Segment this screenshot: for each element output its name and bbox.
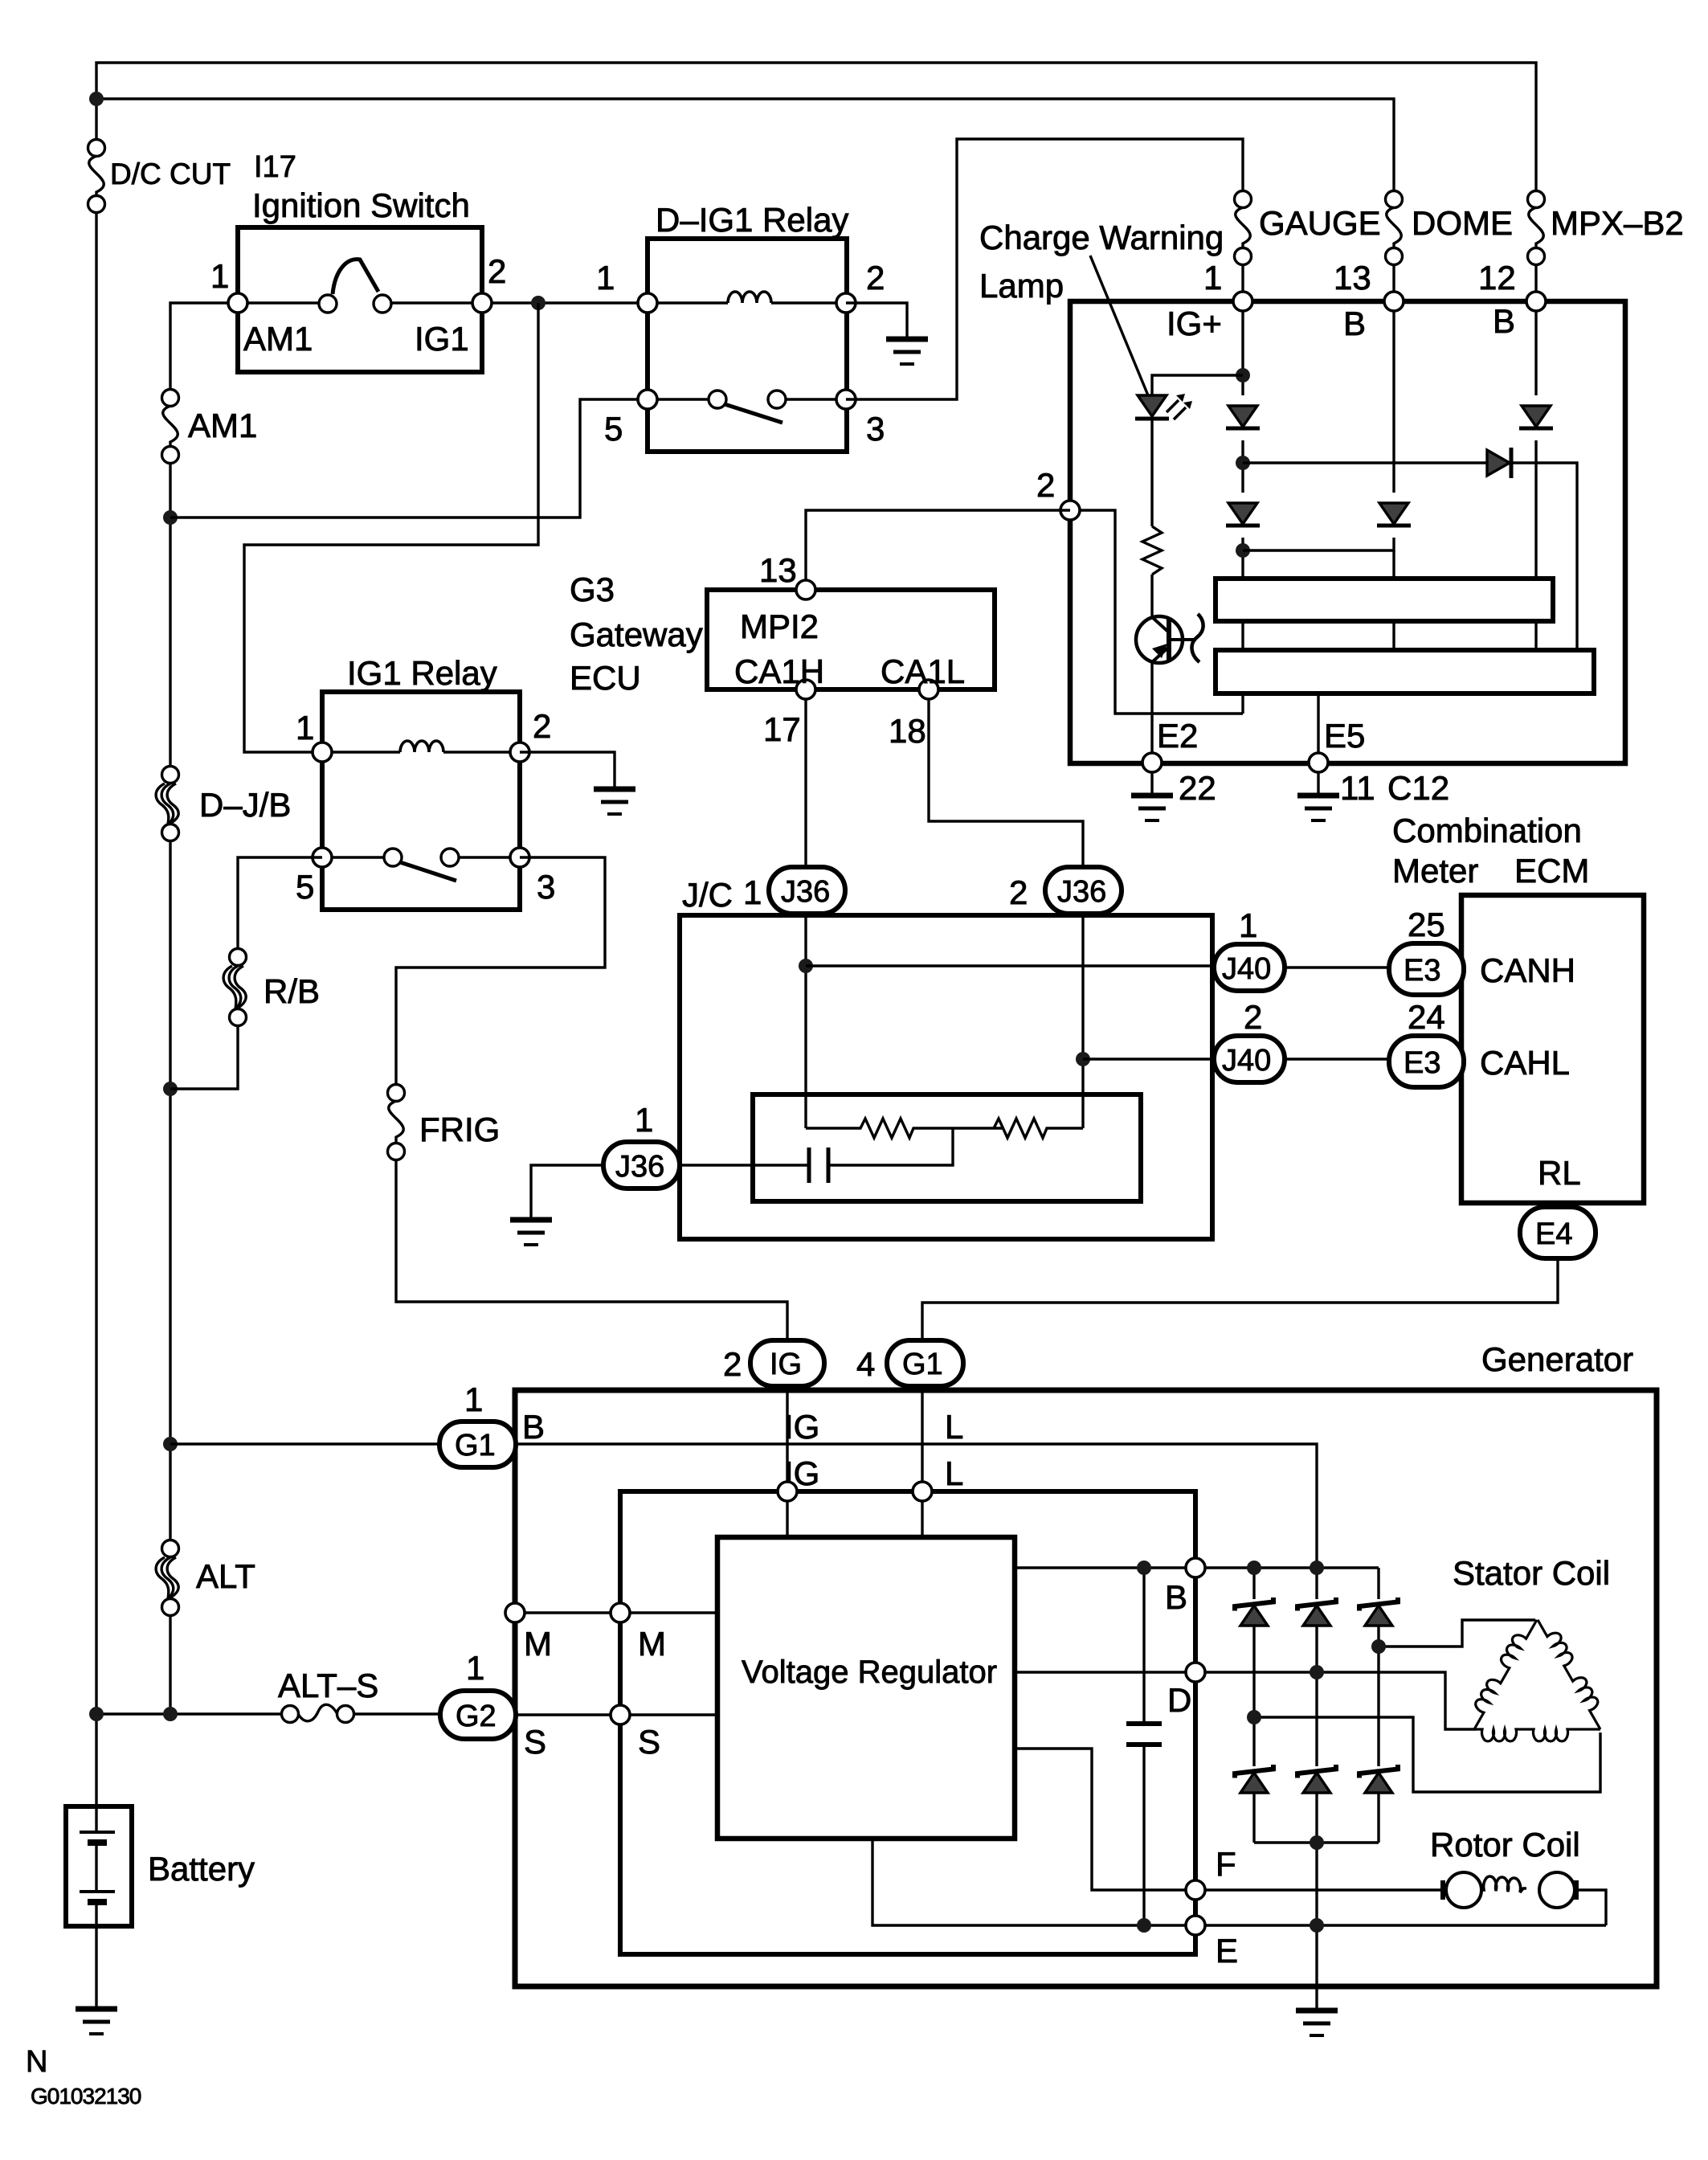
svg-text:E3: E3 (1404, 954, 1440, 988)
svg-text:G2: G2 (456, 1700, 496, 1733)
svg-text:D/C CUT: D/C CUT (110, 157, 231, 190)
diode meter D3 (B column) (1377, 503, 1411, 526)
svg-text:AM1: AM1 (243, 320, 313, 358)
svg-text:ECM: ECM (1514, 852, 1589, 890)
svg-text:1: 1 (464, 1381, 483, 1418)
wire: capacitor to resistor midpoint (828, 1128, 953, 1165)
pin 1 IG1 relay (313, 742, 332, 762)
svg-text:G01032130: G01032130 (31, 2084, 141, 2109)
svg-text:GAUGE: GAUGE (1259, 204, 1381, 242)
svg-text:Stator Coil: Stator Coil (1453, 1554, 1610, 1592)
svg-text:G1: G1 (902, 1348, 943, 1381)
svg-text:1: 1 (635, 1101, 653, 1139)
wire: IG pin to voltage regulator (786, 1491, 788, 1537)
wire: G1 oval into regulator assembly (921, 1386, 923, 1491)
svg-text:25: 25 (1408, 906, 1445, 943)
IG1 relay coil (322, 751, 400, 753)
svg-text:1: 1 (210, 257, 229, 295)
wire: ALT-S fuse to G2 connector (353, 1712, 440, 1715)
pin 3 D-IG1 (836, 390, 856, 409)
wire: battery rail to ALT-S fuse (96, 1712, 282, 1715)
svg-text:R/B: R/B (264, 972, 320, 1010)
IG1 relay switch (322, 856, 384, 858)
terminating resistor box (753, 1094, 1141, 1201)
svg-text:5: 5 (296, 868, 314, 906)
svg-text:2: 2 (1009, 873, 1028, 911)
ignition switch contacts (319, 295, 337, 313)
node: junction bottom bus neutral (1310, 1835, 1324, 1850)
rotor coil with slip rings (1443, 1872, 1606, 1925)
stator coil delta winding (1464, 1614, 1611, 1741)
wire: stator phase 3 tap to triangle right vertex (1254, 1717, 1600, 1792)
svg-text:M: M (524, 1625, 552, 1663)
svg-text:CAHL: CAHL (1480, 1044, 1570, 1082)
svg-text:Combination: Combination (1392, 812, 1582, 849)
pin 13 G3 gateway (796, 580, 815, 599)
wire: R/B fuse to junction at x212 (170, 1025, 238, 1089)
node: junction R/B wire at (212,1355) (163, 1082, 178, 1096)
relay IG1 box (313, 692, 529, 910)
transistor Q1 meter lamp driver (1136, 616, 1183, 663)
svg-text:1: 1 (596, 259, 615, 297)
svg-text:S: S (638, 1723, 660, 1761)
voltage regulator box (717, 1537, 1015, 1839)
pin 2 ignition switch (472, 293, 492, 313)
svg-text:DOME: DOME (1412, 204, 1513, 242)
annotation line from Lamp label to warning LED (1090, 256, 1148, 395)
connector oval J36 no.2 (1045, 867, 1122, 914)
wire: D-IG1 pin2 to ground (846, 303, 907, 337)
node: junction E bus neutral (1310, 1918, 1324, 1933)
svg-text:1: 1 (296, 709, 314, 747)
connector oval E3 no.1 (1389, 943, 1464, 995)
wire: J40 no.1 to E3 no.1 (1285, 966, 1389, 968)
svg-text:J40: J40 (1222, 952, 1271, 986)
fuse D-J/B (fusible link) (162, 767, 179, 783)
svg-text:ALT–S: ALT–S (278, 1667, 378, 1704)
svg-text:17: 17 (763, 710, 801, 748)
fuse FRIG (388, 1085, 788, 1341)
pin 18 G3 gateway CA1L (919, 680, 938, 699)
J/C junction connector box (680, 915, 1212, 1239)
fuse D/C CUT (88, 140, 105, 157)
svg-text:1: 1 (1239, 906, 1257, 944)
svg-text:3: 3 (866, 410, 885, 448)
svg-text:18: 18 (889, 712, 926, 750)
pin 1 meter IG+ (1233, 292, 1252, 311)
wire: IG1 pin2 to ground (520, 752, 615, 787)
svg-text:M: M (638, 1625, 666, 1663)
rectifier diode column 3 (1377, 1568, 1379, 1599)
wire: battery positive top rail 1 to MPX-B2 fuse (96, 63, 1536, 191)
fuse GAUGE (1235, 191, 1252, 208)
pin 17 G3 gateway CA1H (796, 680, 815, 699)
ground: meter E5 (1297, 796, 1339, 820)
wire: VR B output to rectifier (1015, 1566, 1379, 1569)
ground: meter E2 (1131, 796, 1173, 820)
svg-text:AM1: AM1 (188, 407, 257, 444)
ground: IG1 relay coil (594, 789, 635, 814)
svg-text:2: 2 (488, 252, 506, 290)
svg-text:ALT: ALT (196, 1557, 255, 1595)
wire: meter IG+ column with diodes (1241, 311, 1244, 395)
wire: J40 no.2 to E3 no.2 (1285, 1057, 1389, 1060)
pin 2 D-IG1 (836, 293, 856, 313)
svg-text:MPX–B2: MPX–B2 (1551, 204, 1684, 242)
svg-text:Lamp: Lamp (979, 267, 1064, 305)
svg-text:G1: G1 (455, 1429, 496, 1462)
svg-text:B: B (1493, 302, 1515, 340)
pin 12 meter B (1526, 292, 1546, 311)
svg-text:CANH: CANH (1480, 951, 1575, 989)
pin E regulator assembly (1186, 1916, 1205, 1935)
node: junction phase2 tap on D line (1310, 1665, 1324, 1679)
svg-text:Meter: Meter (1392, 852, 1478, 890)
wire: rectifier neutral to ground (1315, 1843, 1318, 2009)
svg-text:ECU: ECU (570, 659, 641, 697)
wire: S terminal from G2 (516, 1713, 717, 1716)
svg-text:J36: J36 (781, 875, 830, 909)
connector oval E3 no.2 (1389, 1036, 1464, 1087)
fuse ALT (fusible link) (162, 1540, 179, 1557)
node: junction generator B wire at (212,1797) (163, 1437, 178, 1451)
wire: meter pin2 to G3 pin13 (806, 510, 1070, 590)
pin 5 IG1 relay (313, 848, 332, 867)
D-IG1 relay switch (648, 398, 709, 400)
svg-text:E5: E5 (1324, 717, 1365, 755)
wire: G3 pin18 to J36 no.2 (929, 699, 1083, 868)
wire: D-J/B to ALT fuse column (169, 841, 171, 1540)
svg-text:FRIG: FRIG (419, 1111, 500, 1148)
pin 2 meter (1060, 501, 1080, 520)
node: junction CANH at (1003,1202) (799, 959, 813, 973)
connector oval J40 no.1 (1214, 944, 1285, 991)
svg-text:IG: IG (770, 1348, 802, 1381)
diode meter D4 (MPX column) (1519, 406, 1553, 428)
wire: AM1 fuse to junction A (169, 463, 171, 767)
node: junction IG+ low tap (1236, 543, 1250, 558)
wire: VR E return bus (872, 1839, 1606, 1925)
ECM box (1461, 895, 1644, 1203)
node: junction IG+ lamp tap (1236, 368, 1250, 382)
svg-text:13: 13 (759, 551, 797, 589)
svg-text:24: 24 (1408, 998, 1445, 1036)
svg-text:22: 22 (1179, 769, 1216, 807)
resistor R1 (terminating) (806, 1119, 1003, 1138)
wire: ignition junction down to IG1 relay pin1 (244, 303, 538, 752)
connector oval G1 (pin 4) (887, 1340, 963, 1386)
wire: IG1 pin3 to FRIG fuse (396, 857, 605, 1085)
wire: GAUGE fuse to meter pin1 (1241, 264, 1244, 301)
svg-text:IG: IG (784, 1408, 819, 1446)
stator winding right side (1538, 1614, 1611, 1729)
svg-text:E2: E2 (1157, 717, 1198, 755)
svg-text:Generator: Generator (1481, 1340, 1633, 1378)
pin B regulator assembly (1186, 1558, 1205, 1577)
wire: ECM RL E4 to generator G1 connector (922, 1258, 1558, 1340)
svg-text:Rotor Coil: Rotor Coil (1430, 1826, 1580, 1863)
SECTION-TOPLEFT (1235, 191, 1545, 302)
wire: battery negative to ground (95, 1902, 97, 2007)
LED charge warning lamp (1138, 395, 1167, 416)
G3 Gateway ECU box (707, 590, 995, 689)
wire: bar1 to bar2 columns (1241, 621, 1244, 650)
node: junction battery rail at (120,123) (89, 92, 104, 106)
fuse ALT-S (282, 1706, 299, 1723)
wire: DOME fuse to meter pin13 (1392, 264, 1395, 301)
wire: rectifier bottom bus (1254, 1841, 1379, 1843)
svg-text:B: B (1165, 1578, 1187, 1616)
wire: capacitor branch upper (1142, 1568, 1145, 1724)
ignition switch I17 box (228, 227, 492, 372)
node: junction capacitor top on B bus (1137, 1561, 1151, 1575)
wire: E5 to ground (1317, 772, 1319, 794)
svg-text:B: B (1343, 305, 1366, 342)
wire: rotor return to E bus (1576, 1890, 1606, 1925)
wire: E2 to ground (1150, 772, 1153, 794)
svg-text:D–J/B: D–J/B (199, 786, 291, 824)
wire: generator B to rectifier top (516, 1444, 1317, 1568)
svg-text:G3: G3 (570, 571, 615, 608)
stator winding bottom side (1474, 1729, 1600, 1741)
wire: J36 no.3 to ground (531, 1165, 603, 1218)
svg-text:I17: I17 (254, 150, 296, 184)
wire: IG1 pin5 to R/B fuse (238, 857, 322, 949)
pin E2 meter (1142, 753, 1162, 772)
svg-text:3: 3 (537, 868, 555, 906)
svg-text:IG1 Relay: IG1 Relay (347, 654, 497, 692)
svg-text:E4: E4 (1535, 1217, 1572, 1251)
connector oval G2 (pin 1, S terminal) (440, 1691, 516, 1739)
svg-text:S: S (524, 1723, 546, 1761)
wire: meter pin2 internal return (1080, 510, 1243, 714)
svg-text:D: D (1167, 1681, 1191, 1719)
svg-text:2: 2 (723, 1345, 742, 1383)
pin S regulator assembly (611, 1705, 630, 1724)
wire: IG oval into regulator assembly (786, 1386, 788, 1491)
svg-text:11: 11 (1340, 769, 1375, 807)
wire: horizontal diode run from IG+ mid tap (1243, 461, 1487, 464)
pin 2 IG1 relay (510, 742, 529, 762)
wire: meter B column (pin 12) (1534, 311, 1537, 395)
svg-text:E: E (1216, 1932, 1238, 1970)
svg-text:L: L (945, 1454, 963, 1492)
SECTION-GENERATOR (89, 1704, 440, 1722)
svg-text:12: 12 (1478, 259, 1516, 297)
svg-text:Battery: Battery (148, 1850, 255, 1888)
svg-text:2: 2 (533, 707, 551, 745)
wire: B column diode to IG+ low tap (1243, 538, 1394, 550)
wire: L pin to voltage regulator (921, 1491, 923, 1537)
relay D-IG1 box (638, 239, 856, 452)
svg-text:1: 1 (466, 1649, 484, 1687)
wire: stator phase 1 tap to triangle apex (1379, 1620, 1535, 1647)
wire: J36 no.2 down to resistor R2 (1081, 914, 1084, 1128)
pin 13 meter B (1384, 292, 1404, 311)
node: junction ALT column ALT-S at (212,2133) (163, 1707, 178, 1721)
svg-text:J/C: J/C (682, 876, 733, 914)
wire: J36 no.3 to capacitor (676, 1164, 809, 1166)
diode meter D1 (IG+ upper) (1226, 406, 1260, 428)
resistor R2 (terminating) (994, 1119, 1083, 1138)
pin L regulator assembly (913, 1482, 932, 1501)
svg-text:Ignition Switch: Ignition Switch (252, 186, 470, 224)
svg-text:E3: E3 (1404, 1046, 1440, 1080)
wire: top rail 2 to DOME fuse (96, 99, 1394, 191)
svg-text:4: 4 (856, 1345, 875, 1383)
rectifier diode column 2 (1315, 1568, 1318, 1599)
svg-text:J36: J36 (1057, 875, 1106, 909)
svg-text:CA1L: CA1L (881, 652, 965, 690)
node: junction phase3 tap (1247, 1710, 1261, 1724)
svg-text:Gateway: Gateway (570, 616, 703, 653)
svg-text:N: N (26, 2045, 47, 2079)
svg-text:B: B (522, 1408, 545, 1446)
pin F regulator assembly (1186, 1880, 1205, 1900)
fuse DOME (1386, 191, 1403, 208)
capacitor C2 (noise suppressor) (1126, 1724, 1162, 1745)
svg-text:D–IG1 Relay: D–IG1 Relay (656, 201, 848, 239)
svg-text:J36: J36 (615, 1150, 664, 1184)
wire: G3 pin17 to J36 no.1 (804, 699, 807, 868)
wire: bar2 to E5 pin (1317, 693, 1319, 763)
svg-text:2: 2 (1036, 466, 1055, 504)
ground: CAN shield J36 (510, 1220, 552, 1245)
svg-text:IG+: IG+ (1167, 305, 1222, 342)
node: junction B bus column2 (1310, 1561, 1324, 1575)
connector oval E4 (1520, 1207, 1596, 1258)
svg-text:1: 1 (743, 873, 762, 911)
pin M regulator assembly (611, 1603, 630, 1622)
connector oval J36 no.1 (769, 867, 845, 914)
resistor meter R (lamp driver) (1142, 526, 1162, 575)
wire: B column to gauge bar1 (1392, 550, 1395, 579)
svg-text:Charge Warning: Charge Warning (979, 219, 1224, 256)
wire: D-IG1 pin3 up over to GAUGE fuse (846, 139, 1243, 399)
wire: MPX diode to gauge bar1 (1534, 440, 1537, 579)
svg-text:CA1H: CA1H (734, 652, 824, 690)
fuse MPX-B2 (1528, 191, 1545, 208)
pin IG regulator assembly (778, 1482, 797, 1501)
svg-text:RL: RL (1538, 1154, 1581, 1192)
svg-text:J40: J40 (1222, 1044, 1271, 1078)
node: junction A at (212,644) (163, 510, 178, 525)
wire: J36 no.1 down to resistor R1 (804, 914, 807, 1128)
wire: junction to generator B terminal G1 (170, 1442, 439, 1445)
pin 1 ignition switch (228, 293, 247, 313)
ground: D-IG1 relay coil (886, 339, 928, 364)
wire: FRIG fuse to generator IG connector (396, 1160, 787, 1340)
node: junction phase1 tap (1371, 1639, 1386, 1654)
pin M generator housing (505, 1603, 525, 1622)
node: junction capacitor bottom on E bus (1137, 1918, 1151, 1933)
svg-text:F: F (1216, 1845, 1236, 1883)
node: junction ignition output at (670,377) (531, 296, 545, 310)
capacitor C1 (terminating) (807, 1147, 810, 1183)
svg-text:L: L (945, 1408, 963, 1446)
wire: MPX-B2 fuse to meter pin12 (1534, 264, 1537, 301)
svg-text:MPI2: MPI2 (740, 607, 819, 645)
wire: transistor emitter to E2 pin (1150, 662, 1153, 763)
ignition switch lever sector (333, 260, 378, 294)
wire: resistor to transistor (1150, 575, 1153, 618)
node: junction battery column ALT-S at (120,2133) (89, 1707, 104, 1721)
wire: battery column from D/C CUT down to battery (95, 212, 97, 1806)
node: junction IG+ mid tap (1236, 456, 1250, 470)
pin E5 meter (1309, 753, 1328, 772)
combination meter box (1070, 301, 1625, 763)
wire: bar2 stub to pin2 return (1241, 693, 1244, 714)
wire: ignition switch pin2 to D-IG1 relay pin1 (482, 301, 648, 304)
connector oval J36 no.3 (603, 1142, 680, 1188)
svg-text:Voltage Regulator: Voltage Regulator (742, 1655, 997, 1690)
pin 1 D-IG1 (638, 293, 657, 313)
pin D regulator assembly (1186, 1663, 1205, 1682)
svg-text:1: 1 (1203, 259, 1222, 297)
diode meter D5 (horizontal) (1487, 450, 1510, 476)
fuse AM1 (162, 390, 179, 407)
regulator assembly inner box (620, 1491, 1195, 1954)
svg-text:IG1: IG1 (415, 320, 469, 358)
ground: generator neutral (1296, 2011, 1338, 2035)
wire: VR F output to rotor (1015, 1749, 1445, 1890)
connector oval IG (pin 2) (750, 1340, 824, 1386)
svg-text:5: 5 (604, 410, 623, 448)
svg-text:2: 2 (866, 259, 885, 297)
wire: CANH junction to J40 no.1 (806, 964, 1212, 967)
svg-text:C12: C12 (1387, 769, 1449, 807)
connector oval J40 no.2 (1214, 1036, 1285, 1082)
wire: charge lamp branch (1152, 375, 1243, 395)
wire: ignition switch pin1 to AM1 fuse (170, 303, 238, 390)
diode meter D2 (IG+ lower) (1226, 503, 1260, 526)
wire: meter B column (pin 13) (1392, 311, 1395, 493)
wire: ALT fuse to ALT-S junction (169, 1615, 171, 1714)
wire: CANL junction to J40 no.2 (1083, 1057, 1212, 1060)
svg-text:13: 13 (1334, 259, 1371, 297)
wire: VR D output to stator tap (1015, 1672, 1476, 1729)
stator winding left side (1464, 1614, 1537, 1729)
node: junction CANL at (1348,1318) (1076, 1052, 1090, 1066)
connector oval G1 (pin 1, B terminal) (439, 1422, 516, 1467)
pin 3 IG1 relay (510, 848, 529, 867)
generator box (515, 1390, 1657, 1986)
ground: battery negative (76, 2009, 117, 2034)
wire: D-IG1 pin5 to junction A (170, 399, 648, 517)
pin 5 D-IG1 (638, 390, 657, 409)
node: junction B bus column1 (1247, 1561, 1261, 1575)
svg-text:2: 2 (1244, 998, 1262, 1036)
wire: LED to resistor (1150, 419, 1153, 526)
wire: capacitor branch lower (1142, 1745, 1145, 1925)
fuse R/B (fusible link) (170, 949, 247, 1090)
D-IG1 relay coil (648, 301, 728, 304)
wire: M terminal (515, 1611, 717, 1614)
gauge bar 2 (1216, 650, 1594, 693)
rectifier diode column 1 (1252, 1568, 1255, 1599)
gauge bar 1 (1216, 579, 1553, 621)
battery symbol (66, 1806, 132, 2007)
